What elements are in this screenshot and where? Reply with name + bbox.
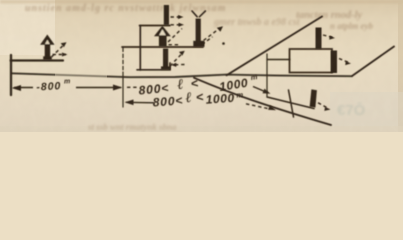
- gradient signal bar (tilted): [310, 89, 317, 107]
- lower 1000m dashed arrow line: [246, 104, 269, 109]
- -800 m: [36, 78, 71, 93]
- gradient signal dashes: [318, 103, 328, 108]
- middle arrow signal: [154, 26, 171, 47]
- tall bar V marks: [192, 11, 205, 17]
- lower 1000m arrowhead: [268, 105, 276, 110]
- 800 < l < (row 1b): [138, 75, 200, 97]
- row1b leading dashes: [127, 86, 139, 88]
- station leader line: [267, 59, 290, 61]
- faded stretch of main line: [55, 70, 107, 79]
- upper 1000m arrow: [253, 87, 266, 93]
- bleed-through bottom right greenish glyphs: [337, 102, 366, 119]
- roof bar signal: [164, 5, 169, 25]
- steep end tick on gradient: [289, 90, 294, 117]
- ink dot: [222, 42, 225, 45]
- bleed-through text (verso print): [25, 3, 373, 132]
- station roof bar dashes: [323, 35, 333, 38]
- station right bar: [331, 51, 337, 74]
- middle arrow dashes: [168, 29, 182, 43]
- small arrow tips on dashed pointers: [61, 15, 351, 111]
- descending gradient track A: [194, 78, 331, 125]
- left arrow signal: [40, 35, 55, 60]
- tower floor line with hook: [137, 63, 170, 70]
- tower left wall: [139, 26, 141, 71]
- lower bar signal: [163, 49, 168, 68]
- station building rectangle: [290, 49, 333, 73]
- 1000 m upper: [218, 72, 260, 94]
- tall bar arrows dashes: [204, 30, 219, 41]
- row2: 800 < l < 1000 m: [152, 86, 244, 110]
- left platform line: [11, 59, 64, 61]
- station right bar dashes: [339, 59, 348, 63]
- lower bar dashes: [170, 53, 183, 67]
- signal platform line B: [267, 97, 314, 109]
- row1 800m dimension: [14, 87, 33, 89]
- left signal dashes: [52, 44, 65, 57]
- paper background: [0, 0, 403, 132]
- diagonal D3 (right turnout): [352, 47, 394, 77]
- row2 lead line with left arrow: [126, 101, 154, 104]
- diagonal D1 (turnout rising right): [227, 17, 323, 76]
- station roof bar: [316, 28, 322, 50]
- main track line: [11, 73, 352, 77]
- reference vertical x=123: [122, 48, 124, 70]
- reference vertical x=267: [266, 54, 268, 96]
- tower mid platform line: [122, 46, 203, 48]
- tall bar signal: [196, 19, 201, 42]
- tower roof line: [140, 25, 171, 27]
- left boundary vertical: [10, 55, 12, 95]
- roof bar dashes: [171, 16, 182, 18]
